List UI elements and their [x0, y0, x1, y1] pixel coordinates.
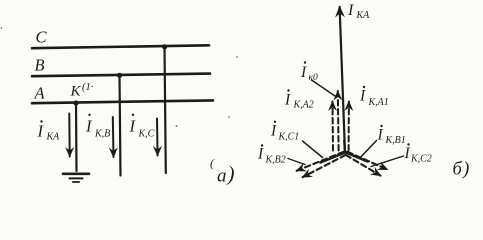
svg-text:К,А1: К,А1 [368, 97, 389, 108]
svg-text:КА: КА [46, 132, 61, 143]
svg-text:КА: КА [356, 10, 371, 21]
svg-text:I: I [129, 117, 137, 136]
svg-text:К,С1: К,С1 [278, 132, 300, 143]
svg-text:К,В2: К,В2 [265, 155, 286, 166]
svg-text:С: С [36, 28, 48, 47]
svg-text:I: I [359, 88, 366, 105]
svg-text:(: ( [210, 156, 215, 170]
svg-text:I: I [37, 122, 45, 141]
svg-text:): ) [227, 162, 235, 186]
svg-text:а: а [217, 166, 227, 187]
svg-text:к0: к0 [309, 73, 318, 83]
svg-text:К,А2: К,А2 [293, 100, 314, 111]
svg-text:I: I [85, 117, 93, 136]
svg-text:I: I [404, 145, 411, 162]
svg-text:I: I [377, 127, 384, 144]
svg-text:(1·: (1· [82, 82, 94, 93]
svg-text:I: I [270, 123, 277, 140]
svg-text:б: б [453, 160, 463, 180]
svg-text:К,В1: К,В1 [385, 135, 406, 146]
svg-text:К,С: К,С [138, 129, 155, 140]
svg-text:I: I [347, 2, 354, 19]
svg-text:К,В: К,В [94, 129, 110, 140]
svg-text:): ) [462, 159, 469, 180]
svg-text:В: В [35, 56, 45, 75]
svg-text:К: К [70, 84, 82, 100]
svg-text:I: I [257, 146, 264, 163]
svg-text:К,С2: К,С2 [410, 154, 432, 165]
svg-text:I: I [284, 92, 291, 109]
svg-text:I: I [300, 64, 307, 81]
svg-text:А: А [34, 84, 46, 103]
